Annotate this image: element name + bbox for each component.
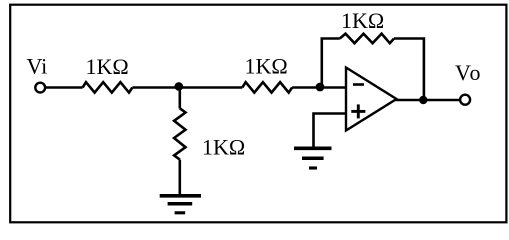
ground symbol (below R2)	[160, 196, 201, 213]
wire: node B up to feedback resistor R4	[322, 39, 340, 88]
wire: Vi terminal to R1	[46, 86, 83, 89]
svg-text:1KΩ: 1KΩ	[86, 54, 129, 79]
ground symbol (op-amp + input)	[294, 148, 332, 168]
wire: R1 to node A	[132, 86, 179, 89]
wire: node C to Vo terminal	[424, 99, 459, 102]
node C junction (output)	[419, 96, 427, 104]
node B junction (inverting input)	[316, 83, 325, 92]
svg-text:Vi: Vi	[27, 54, 48, 79]
op-amp U1	[346, 68, 397, 131]
resistor R1 1KΩ (series input)	[83, 82, 133, 92]
op-amp non-inverting input marker (+)	[351, 104, 365, 118]
svg-text:1KΩ: 1KΩ	[202, 135, 245, 160]
input terminal Vi (open circle)	[35, 83, 45, 93]
svg-text:1KΩ: 1KΩ	[341, 8, 384, 33]
wire: non-inverting input to ground	[314, 114, 347, 149]
node A junction	[175, 82, 184, 91]
output terminal Vo (open circle)	[460, 95, 470, 105]
wire: R3 to node B	[292, 86, 346, 89]
resistor R2 1KΩ (shunt to ground)	[174, 108, 185, 159]
op-amp inverting input marker (−)	[353, 83, 364, 86]
wire: R2 to ground	[179, 160, 182, 196]
resistor R3 1KΩ (series to op-amp)	[242, 82, 292, 92]
svg-text:1KΩ: 1KΩ	[245, 54, 288, 79]
svg-text:Vo: Vo	[455, 60, 482, 85]
wire: node A to R3	[180, 86, 243, 89]
wire: node A down to R2	[179, 88, 182, 109]
wire: R4 to output node C	[394, 39, 424, 101]
wire: op-amp output to node C	[396, 99, 424, 102]
resistor R4 1KΩ (feedback)	[340, 34, 394, 44]
